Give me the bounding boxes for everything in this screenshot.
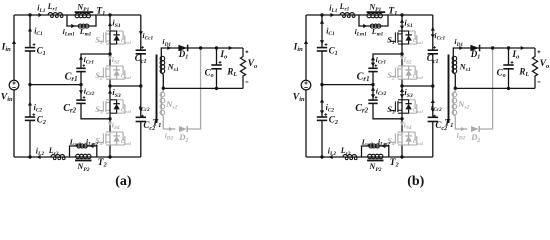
wire: output capacitor branch (b) <box>508 48 510 88</box>
junction dot D2 return node (a) <box>199 46 202 49</box>
capacitor Co (b) <box>503 64 513 66</box>
wire: bottom rail (b) <box>306 156 433 158</box>
inductor Lr2 (a) <box>51 155 65 158</box>
minus mark Vo (a) <box>246 81 249 83</box>
capacitor Cc2 (b) <box>428 116 438 118</box>
current arrow iS2 (b) <box>400 56 404 60</box>
junction dot bottom of C2 branch (b) <box>320 155 323 158</box>
junction dot S1 source node (a) <box>108 52 111 55</box>
transistor S3 (MOSFET with body diode) (a) <box>98 100 125 113</box>
wire: top rail (a) <box>14 14 141 16</box>
junction dot clamp mid node (b) <box>431 84 434 87</box>
plus mark Cc2 (b) <box>433 115 436 117</box>
capacitor C2 (b) <box>317 116 327 118</box>
current arrow iC2 (a) <box>28 102 32 106</box>
core bars of secondary windings (b) <box>448 55 450 124</box>
wire: Ns1 bottom lead (a) <box>161 73 163 88</box>
current arrow iC2 (bidirectional) (b) <box>320 99 324 103</box>
junction dot Cr mid node (b) <box>371 83 374 86</box>
current arrow iC1 (bidirectional) (b) <box>320 20 324 24</box>
current arrow Iin (a) <box>12 40 16 44</box>
capacitor Cr1 (b) <box>368 67 377 69</box>
junction dot secondary mid node (a) <box>162 87 165 90</box>
inductor Lm2 (magnetizing) (a) <box>77 144 81 148</box>
current arrow Io (a) <box>229 46 233 50</box>
wire: switch stack vertical (b) <box>401 15 403 157</box>
junction dot C1-C2 mid (a) <box>28 83 31 86</box>
current arrow iS2 (a) <box>108 56 112 60</box>
plus mark Co (a) <box>219 61 222 63</box>
core bar of T2 primary (b) <box>367 159 383 161</box>
core bar of T1 primary (a) <box>75 11 94 13</box>
wire: resonant capacitor branch Cr1/Cr2 (a) <box>81 54 110 119</box>
inductor Lr1 (b) <box>340 13 354 15</box>
wire: Ns1 bottom lead (b) <box>453 73 455 88</box>
plus mark Cr1 (b) <box>375 65 378 67</box>
plus mark Cr2 (b) <box>375 96 378 98</box>
transistor S1 (MOSFET with body diode) (b) <box>390 31 417 44</box>
junction dot stack bottom node (b) <box>400 155 403 158</box>
winding Ns2 (secondary of T2) (a) <box>160 93 162 115</box>
current arrow iLm2 (b) <box>381 144 385 148</box>
wire: middle horizontal C1-C2 to Cr node (a) <box>30 84 81 86</box>
wire: secondary winding T2 bottom lead and D2 loop (a) <box>161 88 175 129</box>
capacitor C1 (a) <box>25 47 35 49</box>
junction dot S3 source node (b) <box>400 117 403 120</box>
junction dot top of C1 branch (a) <box>28 13 31 16</box>
source Vin (a) <box>9 80 19 90</box>
wire: Lm2 parallel branch (a) <box>70 146 97 157</box>
plus mark Co (b) <box>511 61 514 63</box>
junction dot stack bottom node (a) <box>108 155 111 158</box>
inductor Lm2 (magnetizing) (b) <box>369 144 373 148</box>
junction dot top of C1 branch (b) <box>320 13 323 16</box>
plus mark Cr2 (a) <box>83 96 86 98</box>
junction dot clamp mid node (a) <box>139 84 142 87</box>
wire: left rail (a) <box>13 15 15 157</box>
capacitor C1 (b) <box>317 47 327 49</box>
current arrow iCc2 (a) <box>139 108 143 112</box>
source Vin (b) <box>301 80 311 90</box>
wire: bottom rail (a) <box>14 156 141 158</box>
transistor S4 (MOSFET with body diode) (a) <box>98 132 125 145</box>
current arrow iLm1 (a) <box>71 24 75 28</box>
current arrow iD2 (b) <box>461 127 465 131</box>
winding Ns2 (secondary of T2) (b) <box>452 93 454 115</box>
wire: Lm2 parallel branch (b) <box>362 146 389 157</box>
current arrow iCc1 (a) <box>139 31 143 35</box>
wire: Lm1 parallel branch (a) <box>67 15 96 26</box>
plus mark Vo (b) <box>538 51 541 53</box>
wire: input capacitor branch C1/C2 (b) <box>321 15 323 157</box>
current arrow iCr1 (bidirectional) (b) <box>371 56 375 60</box>
winding NP2 (primary of T2) (b) <box>368 154 372 158</box>
wire: resonant capacitor branch Cr1/Cr2 (b) <box>373 54 402 119</box>
current arrow iC1 (a) <box>28 28 32 32</box>
wire: Lm1 parallel branch (b) <box>359 15 388 26</box>
core bar of T1 primary (b) <box>367 11 386 13</box>
svg-text:(a): (a) <box>115 174 132 189</box>
current arrow iD1 (b) <box>459 46 463 50</box>
current arrow iL1 (a) <box>38 13 42 17</box>
wire: secondary winding T2 bottom lead and D2 loop (b) <box>453 88 467 129</box>
current arrow iL2 (a) <box>37 155 41 159</box>
current arrow iLm2 (a) <box>89 144 93 148</box>
current arrow iCr2 (bidirectional) (b) <box>371 87 375 91</box>
junction dot stack mid node (a) <box>108 84 111 87</box>
inductor Lr2 (b) <box>343 155 357 158</box>
plus mark C2 (b) <box>324 114 327 116</box>
wire: output capacitor branch (a) <box>216 48 218 88</box>
junction dot S1 source node (b) <box>400 52 403 55</box>
capacitor Co (a) <box>211 64 221 66</box>
wire: Ns1 top lead to D1 (b) <box>453 48 535 57</box>
wire: left rail (b) <box>305 15 307 157</box>
current arrow iCr2 (a) <box>79 90 83 94</box>
current arrow iD1 (a) <box>167 46 171 50</box>
wire: middle horizontal C1-C2 to Cr node (b) <box>322 84 373 86</box>
current arrow iD2 (a) <box>169 127 173 131</box>
junction dot S3 source node (a) <box>108 117 111 120</box>
plus mark C2 (a) <box>32 114 35 116</box>
junction dot Co top node (a) <box>215 46 218 49</box>
capacitor Cr2 (a) <box>76 99 85 101</box>
transistor S1 (MOSFET with body diode) (a) <box>98 31 125 44</box>
junction dot bottom of C2 branch (a) <box>28 155 31 158</box>
diode D2 (a) <box>179 126 187 132</box>
current arrow iL1 (b) <box>330 13 334 17</box>
plus mark Cc1 (a) <box>141 46 144 48</box>
inductor Lm1 (magnetizing) (a) <box>78 24 82 28</box>
current arrow iCc1 (bidirectional) (b) <box>431 27 435 31</box>
current arrow iLm1 (b) <box>363 24 367 28</box>
plus mark Cr1 (a) <box>83 65 86 67</box>
current arrow iS1 (bidirectional) (b) <box>400 19 404 23</box>
junction dot secondary mid node (b) <box>454 87 457 90</box>
winding Ns1 (secondary of T1) (a) <box>160 57 162 73</box>
current arrow iCr1 (a) <box>79 56 83 60</box>
resistor RL (a) <box>240 48 245 88</box>
transistor S3 (MOSFET with body diode) (b) <box>390 100 417 113</box>
diode D2 (b) <box>471 126 479 132</box>
current arrow iCc2 (bidirectional) (b) <box>431 99 435 103</box>
current arrow Io (b) <box>521 46 525 50</box>
wire: clamp mid connector (b) <box>402 85 433 87</box>
junction dot D2 return node (b) <box>491 46 494 49</box>
junction dot Cr mid node (a) <box>79 83 82 86</box>
junction dot C1-C2 mid (b) <box>320 83 323 86</box>
junction dot top of switch stack (a) <box>108 13 111 16</box>
wire: Ns1 top lead to D1 (a) <box>161 48 243 57</box>
current arrow iS3 (bidirectional) (b) <box>400 88 404 92</box>
current arrow iS1 (a) <box>108 22 112 26</box>
transistor S4 (MOSFET with body diode) (b) <box>390 132 417 145</box>
capacitor Cr1 (a) <box>76 67 85 69</box>
current arrow iS4 (b) <box>400 122 404 126</box>
inductor Lm1 (magnetizing) (b) <box>370 24 374 28</box>
core bars of secondary windings (a) <box>156 55 158 124</box>
svg-text:(b): (b) <box>407 174 424 189</box>
capacitor Cc2 (a) <box>136 116 146 118</box>
transistor S2 (MOSFET with body diode) (b) <box>390 66 417 79</box>
plus mark Cc2 (a) <box>141 115 144 117</box>
transistor S2 (MOSFET with body diode) (a) <box>98 66 125 79</box>
wire: clamp leg (Cc1/Cc2 branch) (a) <box>140 15 142 157</box>
junction dot Co bottom node (a) <box>215 87 218 90</box>
wire: output bottom rail (a) <box>163 87 243 89</box>
diode D1 (a) <box>178 45 187 52</box>
winding NP1 (primary of T1) (b) <box>367 13 371 17</box>
capacitor Cr2 (b) <box>368 99 377 101</box>
plus mark C1 (a) <box>33 44 36 46</box>
junction dot top of switch stack (b) <box>400 13 403 16</box>
wire: input capacitor branch C1/C2 (a) <box>29 15 31 157</box>
core bar of T2 primary (a) <box>75 159 91 161</box>
winding Ns1 (secondary of T1) (b) <box>452 57 454 73</box>
junction dot Co bottom node (b) <box>507 87 510 90</box>
current arrow iS3 (a) <box>108 90 112 94</box>
inductor Lr1 (a) <box>48 13 62 15</box>
capacitor C2 (a) <box>25 116 35 118</box>
junction dot stack mid node (b) <box>400 84 403 87</box>
resistor RL (b) <box>532 48 537 88</box>
wire: output bottom rail (b) <box>455 87 535 89</box>
wire: clamp mid connector (a) <box>110 85 141 87</box>
junction dot Co top node (b) <box>507 46 510 49</box>
capacitor Cc1 (a) <box>136 49 146 51</box>
plus mark Cc1 (b) <box>433 46 436 48</box>
current arrow Iin (b) <box>304 40 308 44</box>
winding NP1 (primary of T1) (a) <box>75 13 79 17</box>
diode D1 (b) <box>470 45 479 52</box>
wire: top rail (b) <box>306 14 433 16</box>
plus mark C1 (b) <box>325 44 328 46</box>
minus mark Vo (b) <box>538 81 541 83</box>
current arrow iL2 (b) <box>329 155 333 159</box>
plus mark Vo (a) <box>246 51 249 53</box>
current arrow iS4 (a) <box>108 122 112 126</box>
wire: switch stack vertical (a) <box>109 15 111 157</box>
capacitor Cc1 (b) <box>428 49 438 51</box>
winding NP2 (primary of T2) (a) <box>76 154 80 158</box>
wire: clamp leg (Cc1/Cc2 branch) (b) <box>432 15 434 157</box>
